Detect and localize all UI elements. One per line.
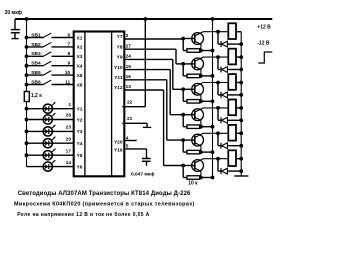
svg-text:X2: X2: [77, 45, 83, 51]
svg-text:20: 20: [66, 136, 72, 142]
svg-text:SB3: SB3: [31, 51, 41, 57]
svg-text:16: 16: [126, 74, 132, 80]
svg-text:Y1: Y1: [77, 107, 83, 113]
svg-text:7: 7: [68, 42, 71, 48]
svg-text:10: 10: [65, 70, 71, 76]
svg-text:5: 5: [126, 144, 129, 150]
svg-text:0,047 мкф: 0,047 мкф: [131, 170, 154, 177]
svg-text:13: 13: [126, 84, 132, 90]
svg-text:Микросхема К04КП020 (применяет: Микросхема К04КП020 (применяется в стары…: [14, 201, 195, 207]
svg-text:4: 4: [126, 136, 129, 142]
svg-text:Y12: Y12: [114, 85, 123, 91]
svg-text:Y19: Y19: [114, 148, 123, 154]
svg-text:1,2 к: 1,2 к: [31, 93, 42, 99]
svg-text:Y8: Y8: [117, 44, 123, 50]
svg-text:+12 В: +12 В: [257, 24, 271, 30]
svg-text:10 к: 10 к: [188, 181, 198, 187]
svg-text:22: 22: [127, 100, 133, 106]
svg-text:X5: X5: [77, 73, 83, 79]
svg-text:Y10: Y10: [114, 65, 123, 71]
svg-text:9: 9: [68, 61, 71, 67]
svg-text:Y20: Y20: [114, 139, 123, 145]
svg-text:6: 6: [68, 32, 71, 38]
svg-text:1: 1: [68, 102, 71, 108]
svg-text:20 мкф: 20 мкф: [5, 9, 23, 16]
svg-text:Y9: Y9: [117, 55, 123, 61]
svg-text:24: 24: [126, 54, 132, 60]
svg-text:23: 23: [66, 125, 72, 131]
svg-text:Светодиоды АЛ307АМ Транзист: Светодиоды АЛ307АМ Транзисторы КТ814 Дио…: [18, 191, 191, 197]
svg-text:X3: X3: [77, 54, 83, 60]
svg-text:21: 21: [127, 116, 133, 122]
svg-text:Y2: Y2: [77, 117, 83, 123]
svg-text:X6: X6: [77, 82, 83, 88]
svg-text:Y4: Y4: [77, 141, 83, 147]
svg-text:Y6: Y6: [77, 164, 83, 170]
svg-text:SB2: SB2: [31, 42, 41, 48]
svg-text:SB5: SB5: [31, 70, 41, 76]
svg-text:Y11: Y11: [114, 75, 123, 81]
svg-text:Y3: Y3: [77, 129, 83, 135]
svg-text:SB1: SB1: [31, 32, 41, 38]
svg-text:Реле на напряжение 12 В и ток: Реле на напряжение 12 В и ток не более 0…: [17, 211, 149, 218]
svg-text:11: 11: [65, 79, 70, 85]
svg-text:X4: X4: [77, 64, 83, 70]
svg-text:SB4: SB4: [31, 61, 41, 67]
svg-text:Y5: Y5: [77, 153, 83, 159]
svg-text:26: 26: [66, 113, 72, 119]
svg-text:SB6: SB6: [31, 79, 41, 85]
svg-text:X1: X1: [77, 35, 83, 41]
svg-text:-12 В: -12 В: [257, 40, 270, 46]
svg-text:8: 8: [68, 51, 71, 57]
svg-text:Y7: Y7: [117, 34, 123, 40]
svg-text:17: 17: [66, 148, 72, 154]
svg-text:14: 14: [66, 160, 72, 166]
